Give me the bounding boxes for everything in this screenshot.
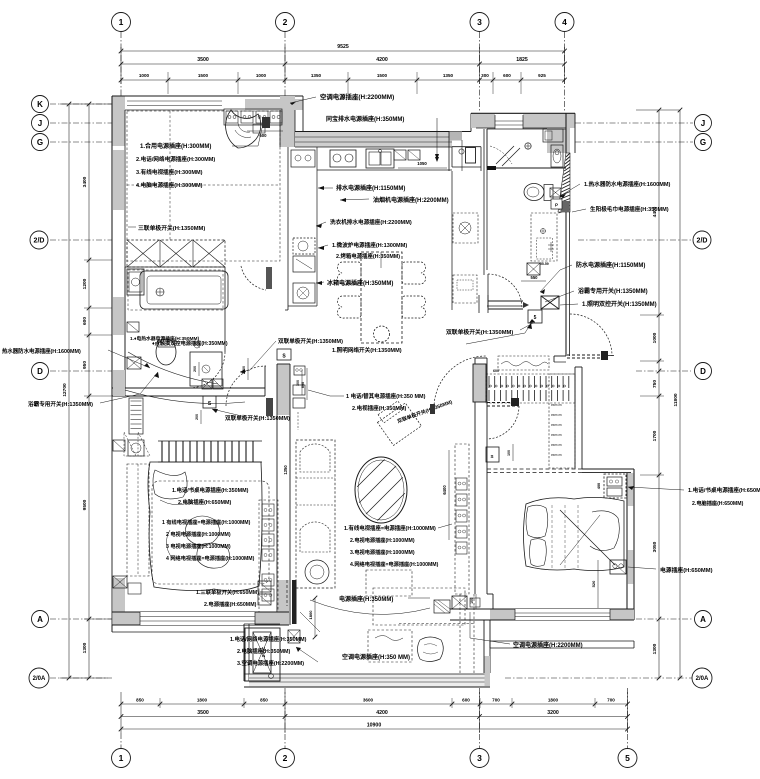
- bath1 fan symbol: [156, 288, 164, 296]
- svg-text:200: 200: [195, 414, 199, 420]
- bath2 interior divider shower: [487, 167, 566, 169]
- dining chairs left: [337, 262, 361, 284]
- svg-text:3.空调电源插座(H:2200MM): 3.空调电源插座(H:2200MM): [237, 659, 304, 667]
- grid bubble 1 top: [112, 13, 131, 32]
- svg-text:4200: 4200: [376, 57, 388, 63]
- living small hatch box: [434, 600, 450, 613]
- bedroom2 gray column left: [473, 364, 486, 402]
- master bottom wall: [113, 612, 289, 625]
- grid bubble 4 top: [555, 13, 574, 32]
- svg-text:3500: 3500: [197, 710, 209, 716]
- svg-text:电源插座(H:650MM): 电源插座(H:650MM): [660, 566, 713, 574]
- svg-text:G: G: [37, 138, 43, 147]
- bath2 ceiling lamp: [525, 143, 531, 149]
- bedroom1 dashed ceiling border: [127, 111, 280, 261]
- bed2 pillow: [526, 505, 548, 538]
- hall socket boxes on wall: [202, 379, 212, 389]
- bedroom2 notch walls: [487, 593, 493, 595]
- svg-text:700: 700: [492, 698, 500, 703]
- radiator symbol bath1: [129, 398, 143, 434]
- kitchen hob: [330, 150, 356, 167]
- svg-text:2.电源插座(H:650MM): 2.电源插座(H:650MM): [204, 600, 257, 608]
- master bottom window: [140, 612, 255, 625]
- svg-text:D: D: [37, 367, 43, 376]
- dressing door arc: [570, 314, 612, 356]
- svg-text:生阳极毛巾电源插座(H:350MM): 生阳极毛巾电源插座(H:350MM): [590, 205, 669, 213]
- dining table: [361, 252, 402, 343]
- svg-text:600: 600: [503, 73, 511, 78]
- svg-text:4 网络电视插座=电源插座(H:1000MM): 4 网络电视插座=电源插座(H:1000MM): [166, 554, 255, 562]
- svg-text:A: A: [700, 615, 706, 624]
- svg-text:电源插座(H:350MM): 电源插座(H:350MM): [339, 595, 393, 603]
- grid bubble 5 bottom: [618, 749, 637, 768]
- bedroom2 socket group top right: [604, 474, 626, 498]
- svg-text:55-59: 55-59: [540, 262, 549, 266]
- svg-text:1 电话/替其电源插座(H:350 MM): 1 电话/替其电源插座(H:350 MM): [346, 392, 426, 400]
- svg-text:550: 550: [531, 275, 539, 280]
- grid line K horizontal: [50, 103, 112, 105]
- living coffee table dashed: [366, 570, 412, 596]
- svg-text:▭▭ ▭: ▭▭ ▭: [551, 453, 562, 457]
- top dimension row 9525: [121, 50, 565, 52]
- master bed outline: [148, 462, 262, 591]
- grid bubble D right: [695, 363, 712, 380]
- svg-text:600: 600: [462, 698, 470, 703]
- living sofa dashed: [296, 440, 335, 588]
- svg-text:4.电脑电源插座(H:300MM): 4.电脑电源插座(H:300MM): [136, 181, 203, 189]
- kitchen top window: [295, 132, 452, 147]
- svg-text:防水电源插座(H:1150MM): 防水电源插座(H:1150MM): [576, 261, 645, 269]
- dressing right wall: [574, 367, 576, 469]
- bath1 toilet: [156, 339, 176, 365]
- balcony bottom window band: [249, 674, 490, 687]
- bedroom2 dressing opening dashed: [487, 468, 582, 470]
- grid bubble G right: [695, 134, 712, 151]
- kitchen left counter: [316, 147, 318, 306]
- svg-text:925: 925: [538, 73, 546, 78]
- bedroom2 entry door arc: [487, 406, 519, 439]
- svg-text:3 电视电源插座(H:1000MM): 3 电视电源插座(H:1000MM): [166, 542, 231, 550]
- bed2 blanket diagonal: [560, 510, 615, 565]
- svg-text:520: 520: [591, 580, 596, 587]
- master SE corner sockets: [258, 581, 271, 592]
- corridor bedroom door arc: [226, 366, 266, 406]
- svg-text:6400: 6400: [442, 485, 447, 495]
- bedroom2 entry door stop: [511, 398, 519, 406]
- misc arrows kitchen: [435, 157, 439, 162]
- svg-text:1.热水器防水电源插座(H:1600MM): 1.热水器防水电源插座(H:1600MM): [584, 180, 671, 188]
- bedroom1 wardrobe: [127, 240, 225, 267]
- svg-text:4200: 4200: [376, 710, 388, 716]
- leader wires master bedroom: [125, 390, 245, 404]
- bath2 power socket near door: [527, 263, 540, 275]
- svg-text:12700: 12700: [62, 383, 68, 397]
- kitchen sink: [366, 149, 394, 168]
- bottom dimension row fine: [121, 703, 628, 705]
- dining stool: [374, 326, 390, 342]
- closet hanger circles mid row: [490, 385, 492, 387]
- kitchen counter appliance boxes: [291, 150, 315, 167]
- grid bubble 2/D left: [30, 231, 48, 249]
- wall bath2 left: [483, 129, 485, 275]
- left dimension chain lines: [68, 104, 70, 678]
- grid line D horizontal: [50, 370, 112, 372]
- svg-text:3050: 3050: [652, 541, 658, 552]
- svg-text:▭▭ ▭: ▭▭ ▭: [551, 423, 562, 427]
- left wall gray segment bath1: [113, 297, 124, 335]
- svg-text:2/0A: 2/0A: [33, 676, 46, 682]
- svg-text:600: 600: [82, 317, 88, 325]
- bath2 door arc: [488, 274, 522, 308]
- dressing side column boxes: [549, 374, 575, 468]
- living door arc to balcony: [434, 356, 486, 408]
- master wardrobe dashed left: [127, 464, 149, 576]
- grid line 2/D horizontal: [50, 239, 112, 241]
- dressing hanger hatch rows: [486, 374, 575, 403]
- hall 800 dim: [306, 368, 308, 400]
- master TV socket strip: [293, 385, 305, 395]
- svg-text:1: 1: [119, 753, 124, 763]
- svg-text:100: 100: [507, 450, 511, 456]
- svg-text:2.电脑插座(H:650MM): 2.电脑插座(H:650MM): [692, 499, 744, 507]
- svg-text:9500: 9500: [82, 499, 88, 510]
- svg-text:2/D: 2/D: [34, 238, 45, 245]
- wall exterior top bedroom1: [112, 96, 125, 146]
- svg-text:2: 2: [283, 753, 288, 763]
- svg-text:950: 950: [82, 361, 88, 369]
- svg-text:2.电视电源插座(H:1000MM): 2.电视电源插座(H:1000MM): [350, 536, 415, 544]
- svg-text:1500: 1500: [377, 73, 388, 78]
- bath1 walls: [124, 267, 126, 388]
- svg-text:4.网络电视插座=电源插座(H:1000MM): 4.网络电视插座=电源插座(H:1000MM): [350, 560, 439, 568]
- svg-text:空调电源插座(H:350 MM): 空调电源插座(H:350 MM): [342, 653, 410, 661]
- kitchen left wall: [287, 147, 289, 310]
- bedroom1 ceiling fan shell: [226, 110, 261, 148]
- corridor arrow to switch5: [466, 333, 525, 344]
- living TV cabinet dashed: [373, 588, 465, 625]
- svg-text:浴霸专用开关(H:1350MM): 浴霸专用开关(H:1350MM): [578, 287, 648, 295]
- grid bubble 3 bottom: [470, 749, 489, 768]
- bed2 side socket right: [610, 560, 626, 574]
- bath2 washbasin top right: [543, 129, 563, 142]
- hall socket pair: [294, 366, 305, 375]
- svg-text:1.电话/书桌电源插座(H:350MM): 1.电话/书桌电源插座(H:350MM): [172, 486, 249, 494]
- svg-text:600: 600: [493, 369, 499, 373]
- grid line 4 vertical: [564, 32, 566, 112]
- svg-text:9525: 9525: [337, 44, 349, 50]
- bath1 door arc: [189, 352, 225, 388]
- bottom dimension extension lines: [120, 692, 122, 733]
- svg-text:▭▭ ▭: ▭▭ ▭: [551, 443, 562, 447]
- svg-text:1200: 1200: [82, 278, 88, 289]
- svg-text:G: G: [700, 138, 706, 147]
- bed2 sheet vertical dashes: [551, 505, 553, 568]
- living TV strip dashed: [455, 444, 469, 594]
- corridor kitchen door leaf: [266, 267, 272, 289]
- bath2 switch 5: [528, 310, 542, 323]
- svg-text:750: 750: [652, 380, 658, 388]
- kitchen wall sockets row: [394, 150, 406, 160]
- wall bedroom1 kitchen divider: [280, 96, 295, 147]
- svg-text:2: 2: [283, 17, 288, 27]
- master bed pillows: [153, 470, 187, 499]
- svg-text:1800: 1800: [197, 698, 208, 703]
- svg-text:3400: 3400: [82, 176, 88, 187]
- svg-text:4: 4: [562, 17, 567, 27]
- svg-text:2.烤箱电源插座(H:350MM): 2.烤箱电源插座(H:350MM): [336, 252, 400, 260]
- balcony right corner gray: [485, 656, 491, 686]
- svg-text:700: 700: [607, 698, 615, 703]
- svg-text:2.电脑插座(H:650MM): 2.电脑插座(H:650MM): [178, 498, 232, 506]
- nook 1050 dimension: [398, 167, 447, 169]
- grid line 1 vertical: [120, 32, 122, 96]
- grid line G horizontal: [50, 141, 112, 143]
- wall bath2 block top: [471, 112, 575, 114]
- bath1 dashed ceiling: [128, 270, 223, 310]
- balcony wash dashed box: [368, 630, 412, 662]
- svg-text:1.合用电源插座(H:300MM): 1.合用电源插座(H:300MM): [140, 142, 211, 150]
- svg-text:3: 3: [477, 753, 482, 763]
- living east wall: [474, 358, 476, 594]
- svg-text:1300: 1300: [652, 643, 658, 654]
- top dimension row 3500 4200 1825: [121, 63, 565, 65]
- svg-text:5: 5: [534, 315, 537, 321]
- svg-text:2.电话/网络电源插座(H:300MM): 2.电话/网络电源插座(H:300MM): [136, 155, 215, 163]
- svg-text:2.电视插座(H:350MM): 2.电视插座(H:350MM): [352, 404, 407, 412]
- entry corridor dashed cabinet1: [453, 213, 478, 243]
- bedroom1 socket 600 dim: [247, 130, 283, 132]
- svg-text:D: D: [700, 367, 706, 376]
- svg-text:A: A: [37, 615, 43, 624]
- entry corridor left wall: [451, 171, 453, 310]
- master bedside table left: [128, 440, 144, 456]
- svg-text:1.照明网络开关(H:1350MM): 1.照明网络开关(H:1350MM): [332, 346, 402, 354]
- svg-text:3500: 3500: [197, 57, 209, 63]
- bath1 tub: [140, 271, 228, 309]
- bedroom2 100 dim: [512, 444, 514, 461]
- svg-text:1800: 1800: [548, 698, 559, 703]
- bedroom2 bed: [524, 497, 625, 570]
- bath2 washing machine dashed: [531, 213, 557, 261]
- svg-text:300: 300: [481, 73, 489, 78]
- grid line J horizontal: [50, 122, 112, 124]
- svg-text:200: 200: [242, 366, 246, 372]
- grid bubble J right: [695, 115, 712, 132]
- living side table round: [305, 560, 329, 584]
- svg-text:1350: 1350: [443, 73, 454, 78]
- master wall living divider gray: [277, 364, 290, 415]
- bottom dimension row 3500 4200 3200: [121, 716, 628, 718]
- svg-text:800: 800: [301, 382, 305, 388]
- grid bubble 3 top: [470, 13, 489, 32]
- svg-text:1050: 1050: [417, 161, 427, 166]
- grid bubble A right: [695, 611, 712, 628]
- svg-text:5: 5: [625, 753, 630, 763]
- svg-text:洗衣机排水电源插座(H:2200MM): 洗衣机排水电源插座(H:2200MM): [330, 218, 412, 226]
- right dimension ticks: [657, 108, 662, 113]
- bed2 520 dim: [597, 560, 599, 608]
- bedroom1 socket row on top wall: [224, 109, 282, 125]
- wall bath2 right with gray corner: [547, 128, 570, 153]
- svg-text:1825: 1825: [516, 57, 528, 63]
- svg-text:2 电视电源插座(H:1000MM): 2 电视电源插座(H:1000MM): [166, 530, 231, 538]
- svg-text:1.照明双控开关(H:1350MM): 1.照明双控开关(H:1350MM): [582, 300, 657, 308]
- svg-text:J: J: [701, 119, 705, 128]
- bath2 black cross box: [541, 296, 559, 309]
- svg-text:▭▭ ▭: ▭▭ ▭: [551, 433, 562, 437]
- grid bubble 1 bottom: [112, 749, 131, 768]
- svg-text:3: 3: [477, 17, 482, 27]
- svg-text:♦点触摸双控电源插座(H:350MM): ♦点触摸双控电源插座(H:350MM): [152, 339, 228, 347]
- svg-text:3.有线电视插座(H:300MM): 3.有线电视插座(H:300MM): [136, 168, 203, 176]
- bath2 top window: [495, 114, 523, 129]
- bath2 insulation hatch wedge: [558, 153, 570, 212]
- svg-text:1300: 1300: [82, 642, 88, 653]
- svg-text:▭▭ ▭: ▭▭ ▭: [551, 413, 562, 417]
- kitchen top counter line: [317, 169, 452, 171]
- svg-text:11800: 11800: [673, 393, 679, 406]
- bedroom1 door black bits: [262, 117, 270, 128]
- corridor black threshold: [487, 166, 496, 170]
- grid line 3 vertical: [479, 32, 481, 112]
- svg-text:双联单极开关(H:1350MM): 双联单极开关(H:1350MM): [225, 414, 290, 422]
- corridor switch S box: [277, 349, 291, 360]
- svg-text:1700: 1700: [652, 430, 658, 441]
- left dimension ticks: [87, 102, 92, 107]
- svg-text:3200: 3200: [547, 710, 559, 716]
- grid bubble 2/D right: [693, 231, 711, 249]
- dressing door threshold dashed: [567, 354, 601, 356]
- bath1 floor drain: [194, 342, 200, 348]
- dining chairs right: [402, 262, 426, 284]
- balcony left wall: [243, 624, 245, 681]
- svg-text:1.有线电视插座=电源插座(H:1000MM): 1.有线电视插座=电源插座(H:1000MM): [344, 524, 436, 532]
- svg-text:热水器防水电源插座(H:1600MM): 热水器防水电源插座(H:1600MM): [2, 347, 81, 355]
- svg-text:1350: 1350: [311, 73, 322, 78]
- svg-text:1500: 1500: [198, 73, 209, 78]
- grid bubble 2 top: [276, 13, 295, 32]
- shower glass lines: [496, 146, 514, 164]
- svg-text:1.电话/书桌电源插座(H:650MM: 1.电话/书桌电源插座(H:650MM: [688, 486, 760, 494]
- master door leaf: [266, 398, 273, 416]
- svg-text:1 有线电视插座=电源插座(H:1000MM): 1 有线电视插座=电源插座(H:1000MM): [162, 518, 251, 526]
- tv cabinet column dashed to balcony: [399, 623, 474, 625]
- svg-text:2.电脑插座(H:350MM): 2.电脑插座(H:350MM): [237, 647, 291, 655]
- svg-text:2/D: 2/D: [697, 238, 708, 245]
- grid bubble G left: [32, 134, 49, 151]
- svg-text:1800: 1800: [308, 610, 313, 620]
- corridor wall right of kitchen: [449, 132, 462, 141]
- svg-text:2/0A: 2/0A: [696, 676, 709, 682]
- entry corridor dashed cabinet2: [453, 275, 477, 303]
- grid bubble 2 bottom: [276, 749, 295, 768]
- bottom dimension row 10900: [121, 728, 628, 730]
- top dimension row fine: [121, 79, 565, 81]
- corridor sink nook counter: [451, 147, 453, 167]
- bath2 small socket symbols: [550, 188, 561, 197]
- svg-text:双联单极开关(H:1350MM): 双联单极开关(H:1350MM): [278, 337, 343, 345]
- bedroom2 100 dim marks: [475, 594, 477, 609]
- master hanging triangles dashed: [124, 432, 136, 456]
- bedroom2 entry threshold dashed: [487, 402, 519, 404]
- svg-text:10900: 10900: [367, 723, 382, 729]
- svg-text:3600: 3600: [363, 698, 374, 703]
- living rug oval hatched: [355, 457, 407, 523]
- master bed blanket squiggles: [185, 516, 219, 545]
- living door frame bits: [430, 404, 435, 414]
- svg-text:1000: 1000: [652, 332, 658, 343]
- grid line 2/0A horizontal: [50, 677, 112, 679]
- svg-text:850: 850: [260, 698, 268, 703]
- bath2 toilet: [524, 184, 544, 201]
- balcony right wall: [483, 620, 485, 673]
- master radiator headboard slats: [161, 441, 163, 462]
- svg-text:冰箱电源插座(H:350MM): 冰箱电源插座(H:350MM): [327, 279, 393, 287]
- bath1 shower tray: [190, 352, 222, 386]
- grid line 2 vertical: [284, 32, 286, 96]
- svg-text:1.三联单极开关(H:650MM): 1.三联单极开关(H:650MM): [196, 588, 259, 596]
- bedroom1 wardrobe bottom wall: [125, 266, 225, 268]
- svg-text:300: 300: [296, 380, 300, 386]
- svg-text:油烟机电源插座(H:2200MM): 油烟机电源插座(H:2200MM): [373, 196, 449, 204]
- living 900 vertical dim: [448, 450, 450, 540]
- svg-text:双联单极开关(H:1350MM): 双联单极开关(H:1350MM): [445, 328, 513, 336]
- bath2 550 dimension: [521, 280, 546, 282]
- svg-text:1350: 1350: [283, 465, 288, 475]
- living armchair rotated: [374, 398, 421, 445]
- bedroom2 bottom wall: [490, 609, 634, 620]
- bedroom2 AC socket corner: [452, 596, 467, 609]
- svg-text:1.微波炉电源插座(H:1300MM): 1.微波炉电源插座(H:1300MM): [332, 241, 407, 249]
- hall small dims: [301, 370, 303, 395]
- svg-text:空调电源插座(H:2200MM): 空调电源插座(H:2200MM): [320, 92, 394, 101]
- bedroom2 railing right: [490, 640, 634, 642]
- svg-text:1000: 1000: [256, 73, 267, 78]
- top dimension extension lines: [120, 47, 122, 84]
- grid bubble D left: [32, 363, 49, 380]
- svg-text:▭▭ ▭: ▭▭ ▭: [551, 403, 562, 407]
- hall 200 dims: [198, 362, 200, 376]
- bedroom2 bottom window: [515, 609, 610, 620]
- master sockets left wall: [113, 440, 125, 451]
- svg-text:同宝排水电源插座(H:350MM): 同宝排水电源插座(H:350MM): [326, 115, 404, 123]
- right dimension chain lines: [658, 110, 660, 678]
- grid bubble A left: [32, 611, 49, 628]
- grid bubble K left: [32, 96, 49, 113]
- svg-text:200: 200: [193, 366, 197, 372]
- switch S box 2: [203, 396, 216, 408]
- corridor wall below bath2 door: [488, 300, 523, 302]
- dressing door jog walls: [554, 355, 566, 357]
- svg-text:3.电视电源插座(H:1000MM): 3.电视电源插座(H:1000MM): [350, 548, 415, 556]
- grid bubble J left: [32, 115, 49, 132]
- grid bubble 2/0A left: [29, 668, 49, 688]
- svg-text:排水电源插座(H:1150MM): 排水电源插座(H:1150MM): [336, 184, 405, 192]
- bath1 sink cabinet: [127, 269, 144, 295]
- balcony leader lines: [300, 612, 320, 632]
- svg-text:J: J: [38, 119, 42, 128]
- dressing closet top dashed: [498, 356, 549, 370]
- balcony 2-AC unit: [245, 628, 280, 681]
- bath1 sockets left wall: [127, 322, 139, 332]
- svg-text:1000: 1000: [139, 73, 150, 78]
- svg-text:1: 1: [119, 17, 124, 27]
- svg-text:三联单极开关(H:1350MM): 三联单极开关(H:1350MM): [138, 224, 205, 232]
- leader wire living arc: [310, 600, 430, 614]
- grid line 5 vertical: [627, 688, 629, 748]
- master annotation dashed rect: [152, 481, 269, 584]
- svg-text:100: 100: [470, 598, 474, 604]
